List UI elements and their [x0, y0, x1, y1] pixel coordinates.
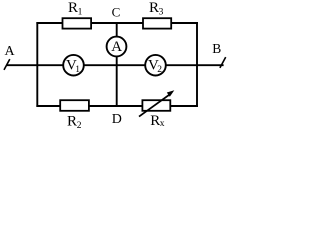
label R2 [67, 114, 82, 132]
resistor R2 [60, 100, 89, 111]
svg-text:D: D [112, 112, 122, 127]
svg-text:A: A [5, 44, 16, 59]
wire middle horizontal A-B [7, 64, 224, 66]
wire bottom horizontal [36, 105, 198, 107]
svg-text:C: C [112, 4, 121, 19]
svg-text:R: R [67, 114, 77, 130]
svg-text:R: R [68, 0, 78, 16]
label R1 [68, 0, 83, 18]
label R3 [149, 0, 164, 18]
label Rx [150, 113, 165, 129]
wire right vertical [196, 22, 198, 107]
wire left vertical [36, 22, 38, 107]
wire top horizontal [36, 22, 198, 24]
svg-text:2: 2 [157, 65, 162, 75]
svg-text:1: 1 [78, 8, 83, 18]
svg-text:B: B [212, 41, 221, 56]
terminal slash at A [4, 59, 10, 70]
voltmeter V2 [145, 55, 166, 76]
resistor R1 [63, 18, 92, 28]
ammeter A [107, 37, 127, 57]
svg-text:x: x [160, 119, 165, 129]
wire center vertical C-D [116, 23, 118, 106]
svg-text:3: 3 [159, 8, 164, 18]
svg-text:R: R [149, 0, 159, 16]
resistor R3 [143, 18, 171, 28]
svg-text:A: A [111, 39, 122, 55]
svg-text:2: 2 [77, 121, 82, 131]
voltmeter V1 [63, 55, 84, 76]
svg-text:1: 1 [75, 65, 80, 75]
resistor Rx (variable) [139, 90, 174, 116]
terminal slash at B [220, 57, 226, 68]
